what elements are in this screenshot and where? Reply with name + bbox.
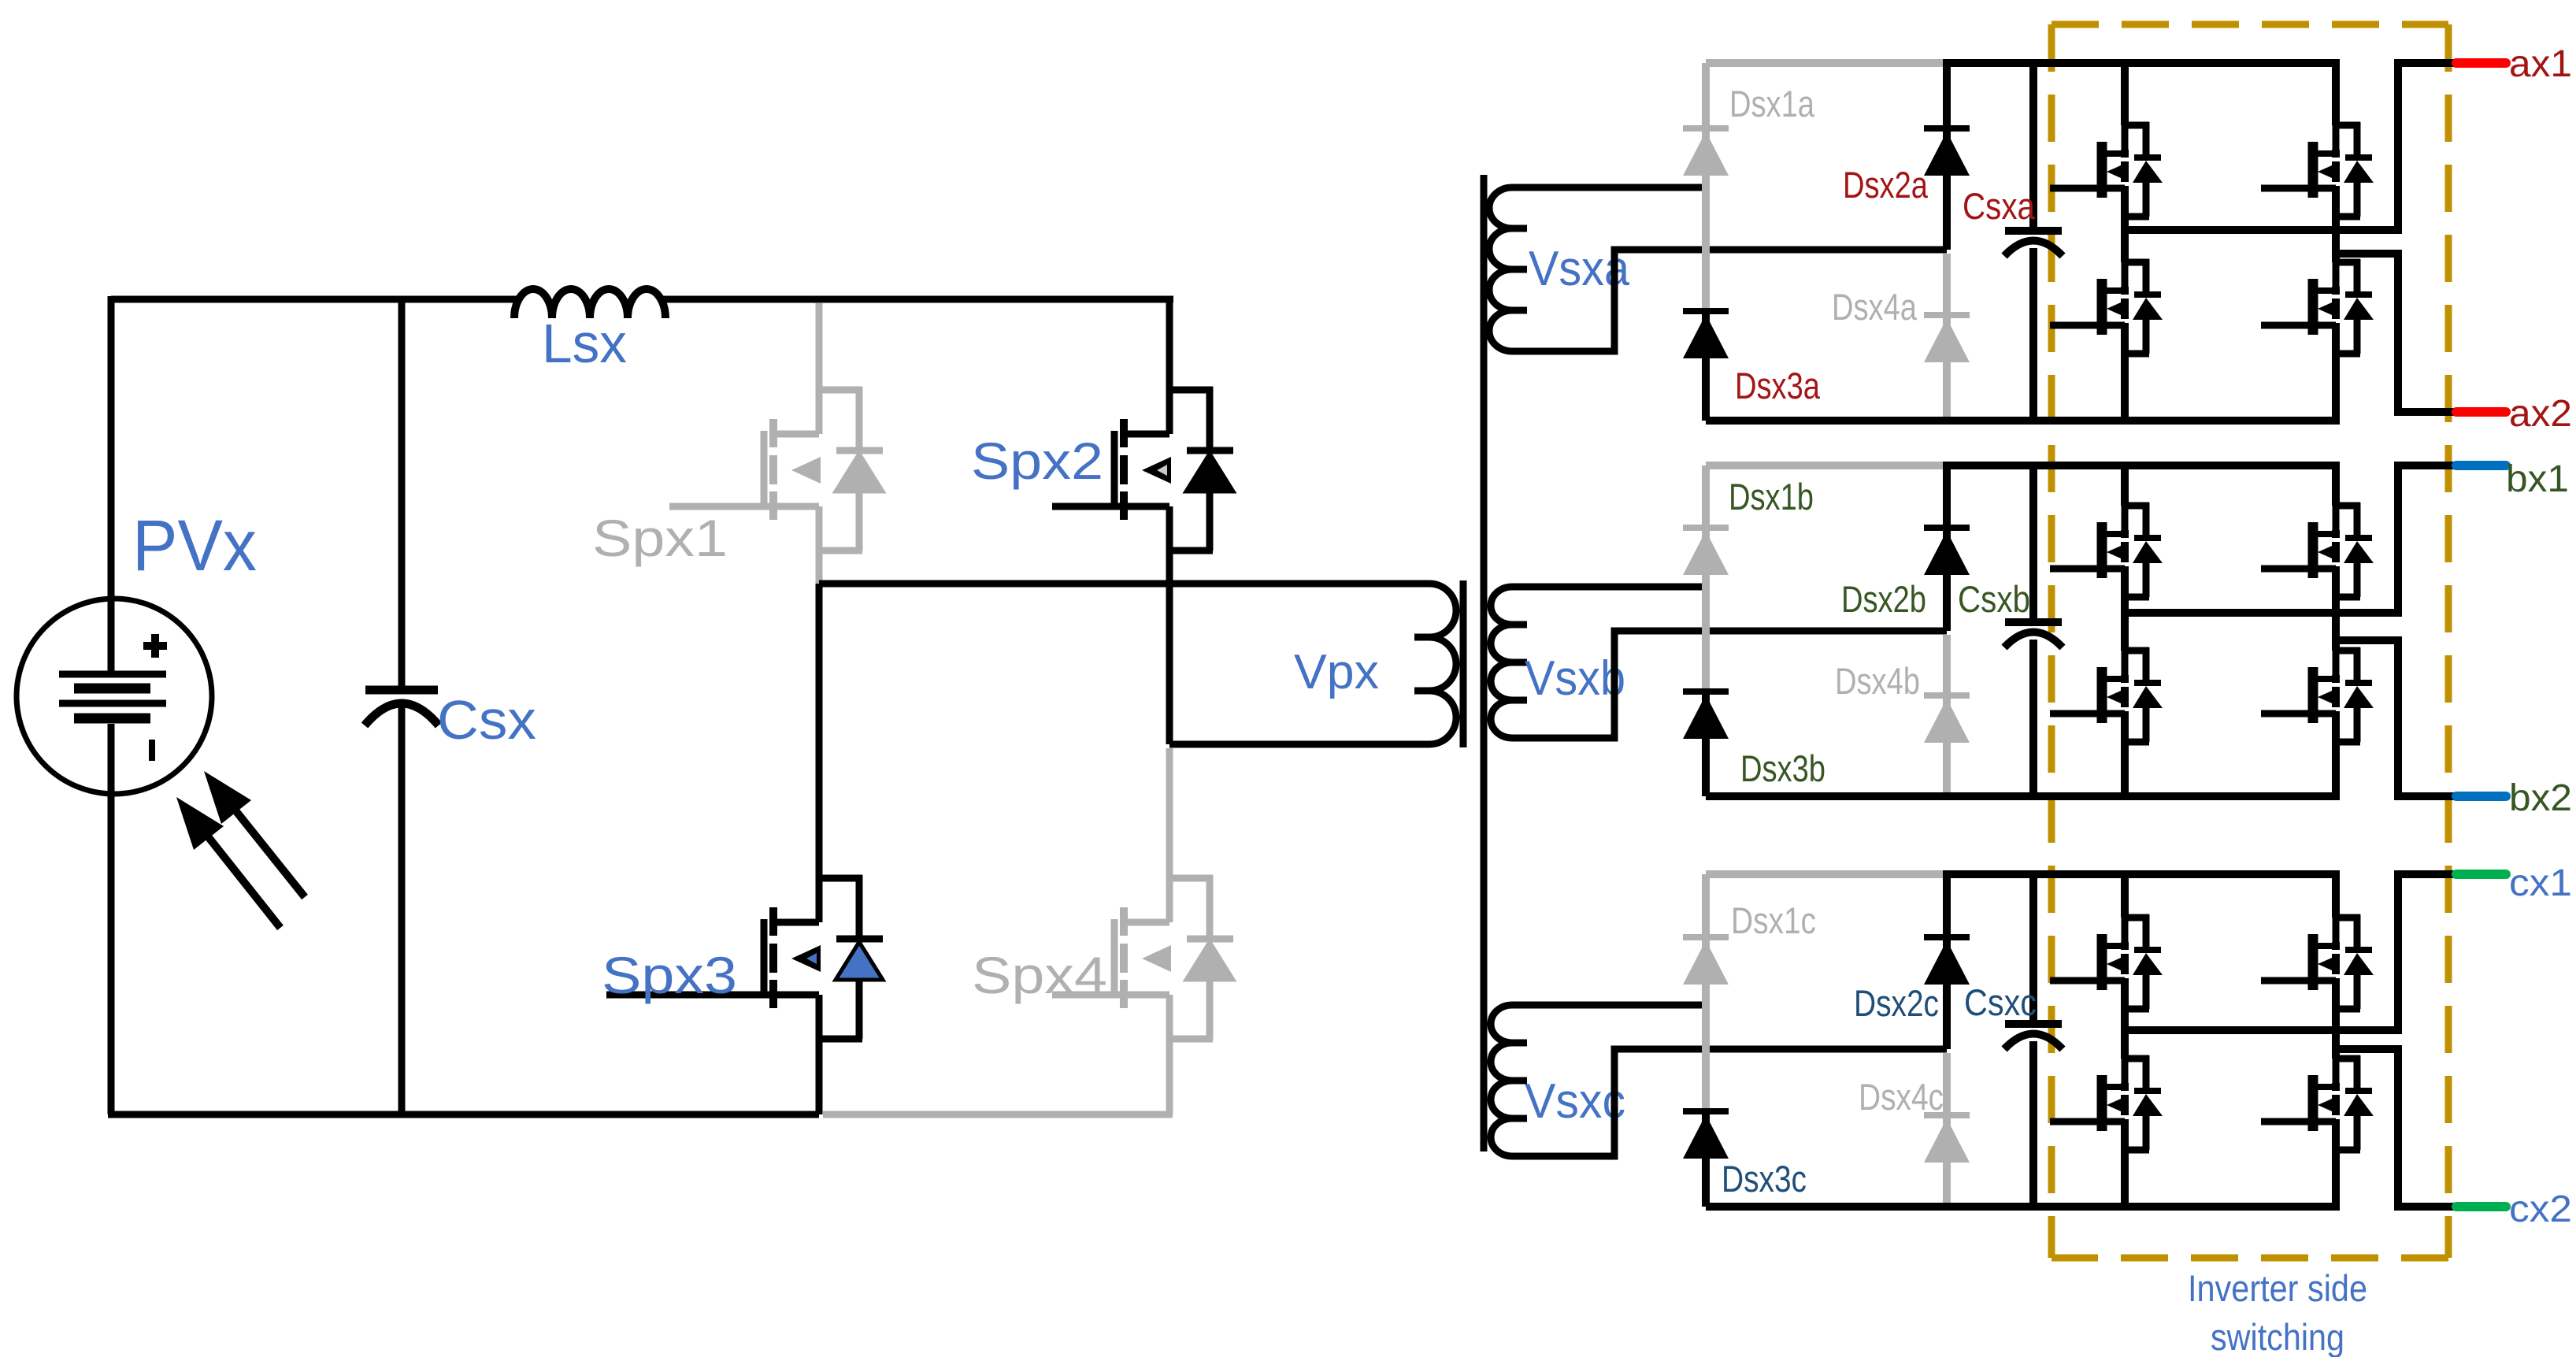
capacitor Csxa upper lead	[2029, 63, 2037, 231]
wire left rail upper	[108, 296, 115, 672]
wire primary bottom	[1169, 741, 1429, 748]
transistor Sb1 top-left inverter MOSFET	[2050, 502, 2163, 600]
wire diode column 2 gray lower phase b	[1943, 635, 1951, 796]
label Dsx1b	[1729, 476, 1814, 517]
capacitor Csxa plates	[2004, 231, 2063, 256]
diode Dsx4b	[1924, 695, 1970, 743]
wire bottom rail gray to Spx4	[823, 1111, 1173, 1118]
svg-text:Dsx3b: Dsx3b	[1740, 747, 1825, 789]
PVx battery cell plates	[59, 674, 166, 718]
svg-text:Csxa: Csxa	[1963, 185, 2036, 227]
svg-text:Spx1: Spx1	[592, 509, 728, 567]
diode Dsx3b	[1683, 692, 1729, 739]
wire Spx3 source	[816, 1039, 823, 1114]
diode Dsx4a	[1924, 315, 1970, 362]
wire diode column 1 gray upper phase b	[1702, 465, 1710, 692]
capacitor Csxc lower lead	[2029, 1041, 2037, 1207]
wire leg2 midpoint section phase c	[2332, 987, 2340, 1059]
transistor Sa3 bottom-left inverter MOSFET	[2050, 259, 2163, 357]
wire bottom rail phase b	[1706, 792, 2340, 800]
wire output bx1 to left-leg midpoint	[2125, 465, 2456, 613]
label Inverter side switching line 1	[2188, 1267, 2367, 1309]
transistor Sc4 bottom-right inverter MOSFET	[2261, 1055, 2374, 1153]
label Csxa	[1963, 185, 2036, 227]
wire top rail black phase b	[1943, 462, 2340, 469]
wire output bx2 to right-leg midpoint	[2336, 640, 2456, 796]
capacitor Csxb upper lead	[2029, 465, 2037, 622]
label Dsx2b	[1841, 578, 1926, 620]
transistor Sb4 bottom-right inverter MOSFET	[2261, 647, 2374, 745]
svg-text:Csxc: Csxc	[1964, 981, 2037, 1023]
label Csx	[437, 689, 536, 751]
transistor Spx1	[669, 387, 883, 554]
PVx plus sign	[143, 634, 167, 658]
wire inverter leg 1 phase a	[2121, 63, 2129, 125]
transformer secondary winding Vsxc	[1491, 1005, 1527, 1156]
diode Dsx2c	[1924, 937, 1970, 985]
transistor Spx3 drain	[816, 584, 823, 878]
wire leg2 source to bottom rail phase c	[2332, 1128, 2340, 1207]
wire leg1 source to bottom rail phase b	[2121, 720, 2129, 796]
capacitor Csx lead upper	[398, 299, 406, 690]
wire diode column 2 black upper phase a	[1943, 63, 1951, 250]
svg-text:ax1: ax1	[2509, 43, 2572, 85]
svg-text:Dsx1c: Dsx1c	[1731, 899, 1816, 941]
node ax1 terminal stub	[2456, 58, 2506, 68]
transformer core bar long	[1481, 175, 1488, 1151]
diode Dsx3a	[1683, 311, 1729, 358]
transistor Spx2	[1166, 299, 1173, 390]
wire Vsxb top terminal to diode column	[1512, 584, 1706, 591]
label Dsx1a	[1729, 83, 1815, 124]
transistor Sa4 bottom-right inverter MOSFET	[2261, 259, 2374, 357]
wire leg2 source to bottom rail phase b	[2332, 720, 2340, 796]
svg-text:Dsx2c: Dsx2c	[1854, 982, 1939, 1024]
label Dsx4a	[1832, 286, 1918, 328]
wire Spx1 drain	[816, 303, 823, 390]
label Dsx4c	[1859, 1076, 1944, 1118]
wire diode column 1 black lower phase a	[1702, 311, 1710, 421]
label bx1	[2506, 458, 2569, 500]
svg-text:Spx4: Spx4	[972, 946, 1107, 1004]
label Dsx3a	[1735, 365, 1821, 406]
wire top rail black phase c	[1943, 870, 2340, 878]
label Spx4	[972, 946, 1107, 1004]
svg-text:Dsx1b: Dsx1b	[1729, 476, 1814, 517]
label Spx3	[602, 946, 737, 1004]
PVx light arrow 2	[176, 797, 280, 928]
label Dsx2c	[1854, 982, 1939, 1024]
capacitor Csxb lower lead	[2029, 640, 2037, 796]
wire left rail lower	[108, 724, 115, 1114]
label Vsxb	[1525, 651, 1625, 706]
svg-text:Spx2: Spx2	[971, 432, 1103, 490]
wire inverter leg 2 phase b	[2332, 465, 2340, 506]
svg-text:Lsx: Lsx	[542, 313, 627, 374]
wire inverter leg 1 phase c	[2121, 874, 2129, 918]
wire Vsxb inner terminal jog	[1512, 631, 1947, 738]
wire Spx2 source leg	[1166, 551, 1173, 744]
label Inverter side switching line 2	[2211, 1316, 2344, 1358]
wire Vsxc top terminal to diode column	[1512, 1002, 1706, 1009]
svg-text:Dsx3a: Dsx3a	[1735, 365, 1821, 406]
wire diode column 1 black lower phase c	[1702, 1111, 1710, 1207]
label bx2	[2509, 777, 2572, 819]
node ax2 terminal stub	[2456, 407, 2506, 417]
svg-text:ax2: ax2	[2509, 393, 2572, 435]
svg-text:Inverter side: Inverter side	[2188, 1267, 2367, 1309]
wire leg1 midpoint section phase b	[2121, 575, 2129, 651]
svg-text:Dsx3c: Dsx3c	[1722, 1158, 1807, 1200]
wire Vsxc inner terminal jog	[1512, 1049, 1947, 1156]
svg-text:Csx: Csx	[437, 689, 536, 751]
label Csxc	[1964, 981, 2037, 1023]
transformer primary winding Vpx	[1414, 584, 1456, 744]
wire Spx4 source	[1166, 1039, 1173, 1114]
label ax1	[2509, 43, 2572, 85]
wire bottom rail phase c	[1706, 1203, 2340, 1211]
wire Vsxa top terminal to diode column	[1512, 184, 1706, 191]
wire leg2 midpoint section phase a	[2332, 195, 2340, 262]
label Vsxc	[1525, 1074, 1625, 1129]
inductor Lsx	[514, 289, 665, 318]
svg-text:PVx: PVx	[132, 506, 257, 586]
diode Dsx4c	[1924, 1115, 1970, 1163]
svg-text:Dsx4c: Dsx4c	[1859, 1076, 1944, 1118]
transformer secondary winding Vsxa	[1489, 187, 1527, 351]
node cx1 terminal stub	[2456, 870, 2506, 879]
wire leg1 midpoint section phase a	[2121, 195, 2129, 262]
svg-text:Dsx2a: Dsx2a	[1843, 164, 1929, 206]
label Spx2	[971, 432, 1103, 490]
wire inverter leg 2 phase a	[2332, 63, 2340, 125]
transistor Spx3	[606, 875, 883, 1042]
wire top rail gray phase b	[1706, 462, 1947, 469]
diode Dsx2b	[1924, 528, 1970, 575]
transistor Sc2 top-right inverter MOSFET	[2261, 914, 2374, 1012]
transistor Sa1 top-left inverter MOSFET	[2050, 122, 2163, 220]
svg-text:Dsx1a: Dsx1a	[1729, 83, 1815, 124]
wire leg1 midpoint section phase c	[2121, 987, 2129, 1059]
wire diode column 2 black upper phase b	[1943, 465, 1951, 631]
wire Vsxa inner terminal jog	[1512, 250, 1947, 351]
PVx minus sign	[149, 740, 155, 761]
svg-text:Dsx4a: Dsx4a	[1832, 286, 1918, 328]
label PVx	[132, 506, 257, 586]
transformer core bar short	[1460, 580, 1467, 747]
label cx1	[2509, 862, 2572, 904]
label cx2	[2509, 1189, 2572, 1230]
transistor Sb2 top-right inverter MOSFET	[2261, 502, 2374, 600]
svg-text:Dsx4b: Dsx4b	[1835, 660, 1920, 702]
wire output cx1 to left-leg midpoint	[2125, 874, 2456, 1030]
wire inverter leg 1 phase b	[2121, 465, 2129, 506]
PVx light arrow 1	[204, 771, 305, 897]
diode Dsx1a	[1683, 128, 1729, 176]
capacitor Csxb plates	[2004, 622, 2063, 647]
wire bottom rail phase a	[1706, 417, 2340, 425]
dashed boundary inverter side switching box right edge	[2445, 24, 2452, 1258]
diode Dsx1c	[1683, 937, 1729, 985]
label Dsx4b	[1835, 660, 1920, 702]
dashed boundary inverter side switching box top edge	[2052, 21, 2448, 28]
label Dsx3c	[1722, 1158, 1807, 1200]
transistor Sc1 top-left inverter MOSFET	[2050, 914, 2163, 1012]
capacitor Csxa lower lead	[2029, 248, 2037, 421]
label Dsx2a	[1843, 164, 1929, 206]
wire top rail inductor to Spx2	[662, 296, 1173, 303]
label Vsxa	[1529, 242, 1629, 296]
label Lsx	[542, 313, 627, 374]
wire diode column 1 gray upper phase c	[1702, 874, 1710, 1111]
capacitor Csxc plates	[2004, 1024, 2063, 1049]
transistor Sb3 bottom-left inverter MOSFET	[2050, 647, 2163, 745]
label Vpx	[1294, 645, 1379, 699]
wire leg2 midpoint section phase b	[2332, 575, 2340, 651]
wire diode column 2 black upper phase c	[1943, 874, 1951, 1049]
wire leg2 source to bottom rail phase a	[2332, 332, 2340, 421]
wire top rail from PV to bridge	[111, 296, 517, 303]
node cx2 terminal stub	[2456, 1202, 2506, 1211]
svg-text:cx1: cx1	[2509, 862, 2572, 904]
label ax2	[2509, 393, 2572, 435]
svg-text:switching: switching	[2211, 1316, 2344, 1357]
wire output ax1 to left-leg midpoint	[2125, 63, 2456, 230]
wire diode column 2 gray lower phase a	[1943, 254, 1951, 421]
diode Dsx3c	[1683, 1111, 1729, 1159]
label Dsx3b	[1740, 747, 1825, 789]
svg-text:Csxb: Csxb	[1958, 578, 2030, 620]
wire bottom rail black	[108, 1111, 819, 1118]
svg-text:bx1: bx1	[2506, 458, 2569, 500]
wire top rail gray phase a	[1706, 59, 1947, 67]
wire inverter leg 2 phase c	[2332, 874, 2340, 918]
capacitor Csx lead lower	[398, 707, 406, 1114]
wire top rail black phase a	[1943, 59, 2340, 67]
wire output cx2 to right-leg midpoint	[2336, 1049, 2456, 1207]
wire leg1 source to bottom rail phase a	[2121, 332, 2129, 421]
svg-text:Vsxb: Vsxb	[1525, 651, 1625, 706]
transformer secondary winding Vsxb	[1491, 587, 1527, 738]
PV source PVx circle	[17, 599, 212, 794]
svg-text:Spx3: Spx3	[602, 946, 737, 1004]
svg-text:cx2: cx2	[2509, 1189, 2572, 1230]
wire Spx1 source to midpoint	[816, 551, 823, 584]
node bx2 terminal stub	[2456, 792, 2506, 801]
svg-text:Dsx2b: Dsx2b	[1841, 578, 1926, 620]
capacitor Csxc upper lead	[2029, 874, 2037, 1024]
wire diode column 1 gray upper phase a	[1702, 63, 1710, 311]
dashed boundary inverter side switching box bottom edge	[2052, 1255, 2448, 1262]
wire leg1 source to bottom rail phase c	[2121, 1128, 2129, 1207]
svg-text:Vsxc: Vsxc	[1525, 1074, 1625, 1129]
wire diode column 1 black lower phase b	[1702, 692, 1710, 796]
transistor Sc3 bottom-left inverter MOSFET	[2050, 1055, 2163, 1153]
capacitor Csx plates	[365, 690, 439, 725]
label Dsx1c	[1731, 899, 1816, 941]
diode Dsx2a	[1924, 128, 1970, 176]
wire top rail gray phase c	[1706, 870, 1947, 878]
wire diode column 2 gray lower phase c	[1943, 1053, 1951, 1207]
node bx1 terminal stub	[2456, 461, 2506, 470]
diode Dsx1b	[1683, 528, 1729, 575]
label Csxb	[1958, 578, 2030, 620]
transistor Spx4	[1052, 875, 1233, 1042]
svg-text:bx2: bx2	[2509, 777, 2572, 819]
wire primary top / left-leg midpoint	[819, 580, 1429, 588]
label Spx1	[592, 509, 728, 567]
transistor Sa2 top-right inverter MOSFET	[2261, 122, 2374, 220]
svg-text:Vpx: Vpx	[1294, 645, 1379, 699]
dashed boundary inverter side switching box left edge	[2048, 24, 2055, 1258]
wire Spx4 drain gray	[1166, 748, 1173, 878]
wire output ax2 to right-leg midpoint	[2336, 254, 2456, 412]
